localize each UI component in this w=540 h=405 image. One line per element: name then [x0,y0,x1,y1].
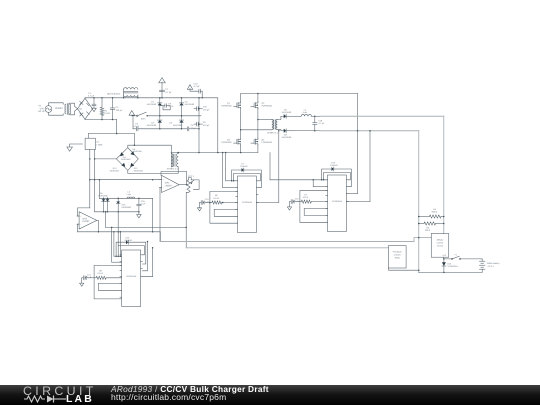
svg-text:MUR1560: MUR1560 [134,169,144,172]
wire D16 node down to U4 [117,212,119,246]
wire U3 pin4R to return rail riser [346,201,370,203]
buck bottom rail with ground [95,211,139,213]
svg-text:22 nF: 22 nF [168,105,174,108]
bus B from U1 [94,150,96,212]
MOSFET Q1 [240,94,242,103]
CircuitLab logo resistor-diode symbol [23,394,69,403]
switch SW1 and middle rail [129,111,135,116]
svg-text:511 Ω: 511 Ω [303,196,309,199]
capacitor C2 [112,97,114,99]
ground for C21 [81,278,83,283]
MOSFET Q4 [253,139,255,144]
wire XFMR2 to bridge B2 top [128,145,172,167]
Allegro current sensor block [431,234,449,258]
svg-text:1 µH: 1 µH [126,193,131,196]
bus A from U1 [89,150,91,208]
wire Q1-Q3 column [240,108,242,138]
op-amp/PWM IC SG3525AN [238,176,257,233]
wire bridge bottom rail [84,118,86,120]
svg-text:4.7 µF: 4.7 µF [165,91,172,94]
svg-text:SG3525AN: SG3525AN [242,201,253,204]
wire loop U2 top inner [234,173,261,180]
svg-text:470 µF: 470 µF [203,108,210,111]
wire bridge top rail [84,97,86,100]
svg-text:~170: ~170 [39,107,45,110]
H-bridge top rail [241,93,358,95]
signal line to pot [106,226,187,228]
wire box U3 lower pins [304,209,327,216]
primary return rail [171,152,258,154]
wire XFMR1 secondary to bridge B1 [70,103,78,109]
diode D2 [159,116,161,119]
potentiometer POT1 [187,180,190,193]
op-amp/PWM IC SG3525AN [328,175,347,232]
capacitor C1 with ground [93,98,95,104]
svg-text:Split inductor: Split inductor [107,92,121,95]
svg-text:L7805: L7805 [96,143,103,146]
svg-text:~12.6 V: ~12.6 V [487,265,495,268]
svg-text:MUR1560: MUR1560 [282,136,292,139]
svg-text:22 nF: 22 nF [191,127,197,130]
wire buck feed [98,180,100,199]
svg-text:FQP50N06: FQP50N06 [221,141,232,144]
bottom rail with capacitor C6 [132,116,134,129]
wire U3 pin2 drop [312,180,314,187]
diode D6 output [284,114,286,118]
wire U4 pin2 row [112,261,122,263]
svg-text:XFMR1: XFMR1 [55,107,64,110]
capacitor C8 [160,105,165,107]
svg-text:MUR1560: MUR1560 [282,111,292,114]
capacitor C18 [314,116,316,118]
power transformer XFMR3 [272,119,273,129]
wire OA2 non-inverting input from sense line [78,208,90,216]
svg-text:SG3525AN: SG3525AN [126,275,137,278]
inductor L2 [127,197,135,198]
wire loop U3 top inner [324,172,351,179]
wire feedback network bottom [389,268,419,270]
diode D16 [117,198,119,201]
op-amp OA2 [79,212,97,229]
capacitor C9 [182,128,188,130]
wire filter output down to U1 region [117,120,135,134]
svg-text:MUR1560: MUR1560 [121,158,131,161]
wire U4 right pins up to rails [142,242,147,271]
rail 2 (POT signal) to feedback network [186,247,388,249]
wire secondary bottom to D8 [277,130,283,131]
svg-text:4.7 µF: 4.7 µF [318,122,325,125]
wire to regulator U1 input [88,134,90,139]
MOSFET Q3 [236,139,238,144]
MOSFET Q2 [257,94,259,103]
wire box U4 lower pins [98,283,121,290]
svg-text:4.7 µF: 4.7 µF [133,125,140,128]
svg-text:SLD8S24A: SLD8S24A [447,265,458,268]
svg-text:511 Ω: 511 Ω [98,272,104,275]
svg-text:MUR1560: MUR1560 [147,103,157,106]
svg-text:4 µH: 4 µH [303,111,308,114]
wire OA1 inverting input down to rail 1 [160,188,162,242]
svg-text:SW1: SW1 [141,118,147,121]
svg-text:10 kΩ: 10 kΩ [104,112,110,115]
bus wire vertical 1 [198,98,200,153]
svg-text:MUR1560: MUR1560 [133,150,143,153]
riser from output rail to U2 [278,131,280,203]
main top rail (rectified +) [85,97,218,99]
wire POT1 bottom to rail 2 [186,192,188,248]
feedback network block [388,246,406,268]
wire OA1 feedback loop [161,172,187,185]
battery BT1 [481,258,482,260]
svg-text:60 Hz: 60 Hz [39,110,46,113]
svg-text:SG3525AN: SG3525AN [332,200,343,203]
svg-text:sensor: sensor [437,245,444,248]
op-amp/PWM IC SG3525AN [122,250,141,307]
wire U2 output to feedback riser [256,202,278,204]
wire U3 pin1 long row from transformer area [270,179,328,181]
svg-text:1N4148: 1N4148 [240,165,248,168]
svg-text:600 Ω: 600 Ω [432,211,438,214]
wire box around U4 RC [94,266,122,299]
inductor L1 [301,115,311,117]
wire box around U2 RC [210,192,238,224]
diode D3 [181,116,183,119]
sense line to OA1 [90,179,162,181]
wire return rail right vertical [418,131,420,273]
diode D4 [181,97,183,99]
wire U2 pin2 row [223,187,238,189]
resistor R7 and capacitor C20 with ground [290,201,292,203]
output positive rail [311,115,320,117]
current sense transformer XFMR2 [171,154,173,167]
capacitor C15 [138,198,140,200]
rectifier bridge B1 [78,98,93,119]
CircuitLab logo text CIRCUIT [23,384,97,398]
wire Q2-Q4 column [257,108,259,138]
svg-text:OA2: OA2 [82,217,87,220]
CircuitLab logo text LAB [66,393,94,404]
capacitor C17 [194,123,197,125]
op-amp OA1 [162,175,180,192]
resistor R1 [101,97,103,99]
resistor R6 and capacitor C19 with ground [200,202,202,204]
wire U3 pin3R to top rail riser [346,193,357,195]
net flag VA with capacitor C7 [159,78,166,83]
svg-text:MUR1560: MUR1560 [185,103,195,106]
svg-text:XFMR3 2:1: XFMR3 2:1 [267,132,279,135]
voltage regulator U1 [85,138,95,149]
rail 1 (OA2 signal) [160,241,414,243]
svg-text:MUR1560: MUR1560 [110,169,120,172]
buck top rail [99,197,152,199]
svg-text:250Ah battery: 250Ah battery [487,262,501,265]
bus wire vertical 2 [217,98,219,153]
follower line to rail 1 [78,231,161,233]
wire OA2 output down [97,220,99,231]
svg-text:MUR1560: MUR1560 [122,206,132,209]
resistor R8 and capacitor C21 with ground [82,277,84,279]
TVS diode D15 [443,259,445,262]
svg-text:LM397: LM397 [165,184,173,187]
svg-text:Feedback: Feedback [393,250,402,253]
wire loop U4 top inner [118,246,144,257]
wire U2 pin1 row [226,180,238,182]
wire sensor to fuse [444,257,451,259]
svg-text:FQP50N06: FQP50N06 [262,105,273,108]
wire 105.6 drop [105,212,107,228]
svg-text:700 Ω: 700 Ω [425,229,431,232]
svg-text:4.7 µF: 4.7 µF [88,95,95,98]
svg-text:MUR1560: MUR1560 [173,124,183,127]
wire U2 ladder from rail [222,153,224,188]
fuse F1 [451,258,452,259]
wire OA1 output [179,184,187,186]
battery bottom rail [419,271,482,273]
voltage source V1 (AC mains) [45,106,52,113]
diode D1 [159,97,161,99]
svg-text:511 Ω: 511 Ω [213,197,219,200]
net flag VB with capacitor C10 [187,85,193,90]
svg-text:current: current [437,242,444,245]
svg-text:FQP50N06: FQP50N06 [221,105,232,108]
svg-text:4.7 µF: 4.7 µF [194,85,201,88]
wire XFMR2 to bridge B2 bottom [128,167,178,174]
output negative rail [295,130,321,132]
wire box U2 lower pins [214,209,237,216]
svg-text:1N4148: 1N4148 [330,164,338,167]
wire secondary top to D6 [277,116,283,119]
wire buck output down [152,198,154,232]
wire output rail right vertical [443,116,445,233]
svg-text:OA1: OA1 [165,182,170,185]
svg-text:1 µF: 1 µF [141,203,146,206]
ladder drops to U4 [111,227,113,262]
svg-text:(FB6): (FB6) [395,256,400,259]
ground for C19 [199,203,201,208]
rail 1 riser to current sensor [414,238,431,242]
wire U4 pin1 row [114,255,122,257]
ground for C20 [289,202,291,207]
footer url text [111,391,226,401]
transformer XFMR1 [64,104,67,114]
resistor R5 [419,223,424,225]
wire box around U3 RC [300,191,328,223]
svg-text:FQP50N06: FQP50N06 [262,141,273,144]
wire primary bottom [241,129,272,131]
svg-text:100 µF: 100 µF [116,109,124,112]
svg-text:470 µF: 470 µF [203,124,210,127]
diode D8 output [284,129,286,133]
svg-text:XFMR2 2:1: XFMR2 2:1 [167,168,179,171]
sense rectifier bridge B2 diodes D11 D12 D13 D14 [116,148,138,171]
wire down to bridge B2 top [133,134,135,146]
wire bridge B2 left [95,158,117,160]
capacitor C16 [194,108,197,110]
wire POT1 box right [189,178,192,180]
svg-text:network: network [394,253,401,256]
resistor R4 [419,216,430,218]
wire primary top [258,119,272,121]
ground flag at U1 input [70,144,83,147]
footer title text [111,384,269,394]
wire feedback right vertical from top rail [357,94,359,194]
wire V1 to transformer XFMR1 [49,103,64,106]
svg-text:Allegro: Allegro [437,239,444,242]
wire OA2 inverting input to output line [78,224,80,232]
svg-text:MUR1560: MUR1560 [98,195,108,198]
svg-text:LM397: LM397 [82,220,90,223]
svg-text:MUR1560: MUR1560 [147,124,157,127]
wire U3 pin1 row feed vertical [269,153,271,180]
